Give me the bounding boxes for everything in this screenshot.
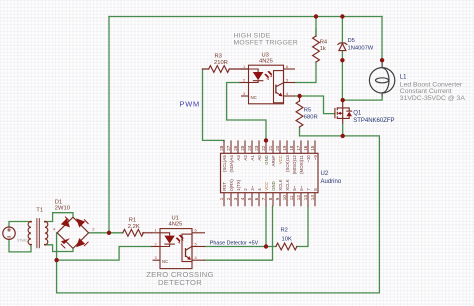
U1 pin3 stub NC [153,259,161,261]
svg-text:3: 3 [155,255,157,260]
Q1 body link [340,108,343,119]
svg-text:26: 26 [233,145,238,151]
svg-text:5: 5 [195,241,197,246]
Q1 body diode cathode bar [346,110,352,112]
Q1 source link [337,118,342,123]
wire Arduino GND pin to U1 pin4 [205,206,273,260]
svg-text:10K: 10K [282,237,292,243]
transformer T1 [28,218,48,248]
svg-text:A0: A0 [257,155,262,161]
U3 photon arrow 1 [264,74,269,80]
svg-text:4: 4 [53,226,56,231]
svg-text:8: 8 [313,188,318,191]
U3 phototransistor emitter [276,92,281,96]
D1 diamond edge NW [57,217,73,233]
Q1 body diode triangle [346,112,352,117]
svg-text:(MOSI)11: (MOSI)11 [299,155,304,174]
U3 pin1 stub [240,68,249,70]
svg-text:6: 6 [286,64,288,69]
svg-text:10: 10 [282,195,287,201]
L1 filament ellipse [376,78,389,83]
U3 pin2 stub [240,82,249,84]
junction D5 top [340,14,344,18]
Q1 drain link and lead [337,100,342,108]
svg-text:0(RX): 0(RX) [229,179,234,191]
svg-text:5~: 5~ [292,185,297,190]
svg-text:T1: T1 [36,208,43,214]
svg-text:4: 4 [286,91,289,96]
svg-text:D1: D1 [55,199,62,205]
svg-text:(SCL)A5: (SCL)A5 [222,155,227,172]
junction bridge minus node [54,258,58,262]
svg-text:R1: R1 [129,218,136,224]
U3 phototransistor base bar [275,85,277,94]
bridge rectifier D1 2W10 [57,217,88,248]
U3 photon arrow 2 [267,71,272,77]
wire R4 top lead to rail [315,17,317,37]
junction bridge plus node [107,231,111,235]
svg-text:L1: L1 [400,75,407,81]
svg-text:1: 1 [29,232,31,236]
svg-text:U1: U1 [172,216,179,222]
U3 LED leads [249,69,259,83]
svg-text:3: 3 [233,197,238,200]
svg-text:Q1: Q1 [353,111,362,117]
svg-text:(SCK)13: (SCK)13 [285,155,290,172]
Q1 body diode bar line top [343,108,350,111]
svg-text:25: 25 [240,145,245,151]
op-to U3 4N25 [240,65,296,104]
svg-text:R5: R5 [304,107,311,113]
svg-text:A2: A2 [243,155,248,161]
D1 diode NW (left to top) [61,218,70,227]
T1 core line left [36,218,38,248]
svg-text:NC: NC [162,259,168,264]
resistor R1 2.2K [123,229,144,236]
D1 diode SW (left to bottom) [61,238,70,244]
wire Q1 source to ground rail [342,124,344,136]
svg-text:Audrino: Audrino [321,179,342,185]
L1 bottom lead [381,93,383,97]
svg-text:12: 12 [296,195,301,201]
svg-text:16: 16 [303,145,308,151]
wire R2 right to Arduino pin 7 [297,206,308,246]
svg-text:2: 2 [92,226,95,231]
Q1 body arrowhead [338,112,341,115]
Q1 body diode bar line bottom [343,116,350,118]
T1 pin dot primary bottom [30,244,32,246]
svg-text:680R: 680R [304,114,318,120]
T1 pin dot primary top [30,221,32,223]
opto U1 4N25 [151,229,205,269]
T1 secondary winding [45,222,48,245]
resistor R3 210R [209,66,230,73]
svg-text:R4: R4 [320,40,328,46]
wire top +V rail [109,16,382,18]
junction D5 anode [340,58,344,62]
resistor R2 10K [276,243,297,250]
svg-text:GND: GND [271,181,276,191]
wire left +V rail [108,17,110,233]
junction Arduino pin22 [264,138,268,142]
D1 NW cathode bar [65,217,70,222]
svg-text:6: 6 [254,197,259,200]
svg-text:GND: GND [264,155,269,165]
svg-text:A3: A3 [236,155,241,161]
U1 phototransistor emitter [186,256,191,260]
wire R4 top lead lower part [315,29,317,36]
L1 inner arc [382,68,389,93]
junction Q1 source ground node [341,134,345,138]
svg-text:PWM: PWM [180,99,200,108]
junction lamp top [380,58,384,62]
diode D5 1N4007W triangle [339,44,346,51]
wire U3 pin4 to gate node [295,95,300,97]
wire R4 bottom to U3 pin5 [295,62,316,83]
svg-text:MOSFET TRIGGER: MOSFET TRIGGER [234,39,298,46]
U1 LED cathode bar [164,243,175,245]
IC U2 Arduino [221,153,319,192]
AC source minus sign [7,236,11,238]
svg-text:24: 24 [247,145,252,151]
svg-text:DETECTOR: DETECTOR [158,278,202,287]
svg-text:NC: NC [251,95,257,100]
U1 pin1 stub [151,232,160,234]
wire D5 anode down to Q1 drain node [341,51,343,100]
wire bridge minus to U1 pin2 [57,247,151,261]
D1 diode NE (top to right) [76,218,85,227]
svg-text:1k: 1k [320,46,326,52]
D1 NE cathode bar [84,219,89,224]
svg-text:22: 22 [261,145,266,151]
wire R1 to U1 pin1 [143,232,151,234]
wire lamp bottom to Q1 drain node [343,97,382,101]
wire Arduino VCC pin down to +5V node [265,206,267,246]
svg-text:VCC: VCC [278,155,283,164]
wire transformer secondary top to bridge AC1 [45,213,73,222]
svg-text:4N25: 4N25 [169,222,183,228]
svg-text:27: 27 [226,145,231,151]
wire U1 pin5 phase detector +5V row [205,246,276,248]
svg-text:STP4NK60ZFP: STP4NK60ZFP [353,118,394,124]
AC source [3,227,15,239]
wire AC source top to transformer primary [9,222,31,228]
svg-text:5: 5 [247,197,252,200]
svg-text:~10: ~10 [306,155,311,163]
D1 SW cathode bar [61,244,66,249]
svg-text:4: 4 [257,188,262,191]
T1 pin dot secondary top [44,221,46,223]
svg-text:1: 1 [219,197,224,200]
wire D5 top lead to rail [341,17,343,43]
svg-text:1: 1 [155,228,157,233]
svg-text:19: 19 [282,145,287,151]
svg-text:~9: ~9 [313,155,318,161]
svg-text:1: 1 [243,64,245,69]
junction +5V node [264,244,268,248]
mosfet Q1 STP4NK60ZFP [335,100,352,123]
wire R5 bottom to ground rail [299,127,301,136]
U3 LED triangle [253,72,264,80]
wire U3 pin2 to Arduino pin22 GND [227,83,266,141]
svg-text:31VDC-35VDC @ 3A: 31VDC-35VDC @ 3A [400,95,466,102]
U2 pin stubs top and bottom [224,140,315,206]
svg-text:15: 15 [310,145,315,151]
Q1 channel dashes [336,107,338,119]
U1 pin6 stub [192,232,205,234]
svg-text:U2: U2 [321,171,329,177]
AC source plus sign [7,228,11,232]
L1 top lead [381,60,383,67]
D1 diamond edge SW [57,233,73,249]
U1 LED leads [160,233,170,247]
svg-text:2: 2 [155,241,157,246]
svg-text:2: 2 [243,188,248,191]
resistor R5 top lead [299,96,301,101]
svg-text:13: 13 [303,195,308,201]
svg-text:(MISO)12: (MISO)12 [292,155,297,175]
svg-text:9: 9 [275,197,280,200]
svg-text:R2: R2 [281,228,288,234]
D1 diamond edge NE [73,217,89,233]
svg-text:XCLK: XCLK [285,179,290,191]
svg-text:2: 2 [243,77,245,82]
D1 diamond edge SE [73,233,89,249]
svg-text:2: 2 [46,232,48,236]
svg-text:20: 20 [275,145,280,151]
svg-text:4: 4 [240,197,245,200]
diode D5 1N4007W cathode bar [338,43,347,45]
Q1 gate line [334,108,336,119]
svg-text:A1: A1 [250,155,255,161]
svg-text:VCC: VCC [264,182,269,191]
U1 photon arrow 2 [179,235,184,241]
resistor R5 680R [296,101,303,127]
resistor R3 leads [203,68,249,70]
U3 pin5 stub [284,82,296,84]
U1 phototransistor collector [186,246,192,250]
svg-text:XCLK: XCLK [278,179,283,191]
svg-text:RST: RST [222,182,227,191]
U1 inner transistor box [182,234,192,261]
svg-text:4: 4 [195,255,198,260]
U3 inner transistor box [274,71,284,103]
U3 pin4 stub [284,95,296,97]
U3 LED cathode bar [253,80,264,82]
svg-text:2.2K: 2.2K [128,224,140,230]
U1 emitter arrowhead [187,256,191,260]
U3 outer box [249,65,284,104]
svg-text:U3: U3 [262,52,269,58]
wire ground rail loop [57,136,380,293]
svg-text:7: 7 [261,197,266,200]
U2 box [221,153,319,192]
T1 core line right [38,218,40,248]
resistor R4 1k [313,36,320,62]
svg-text:17: 17 [296,145,301,151]
lamp L1 [369,60,394,96]
T1 primary winding [28,222,31,245]
svg-text:4N25: 4N25 [259,59,273,65]
wire gate node to Q1 gate [300,96,335,114]
svg-text:2: 2 [226,197,231,200]
AC source circle [3,227,15,239]
wire Arduino pin28 to R3 (PWM net) [203,69,225,141]
wire lamp top from rail [381,17,383,61]
svg-text:5: 5 [286,77,288,82]
svg-text:3: 3 [243,91,245,96]
U3 pin3 stub NC [241,95,249,97]
svg-text:23: 23 [254,145,259,151]
svg-text:18: 18 [289,145,294,151]
svg-text:1N4007W: 1N4007W [348,45,374,51]
U3 emitter arrowhead [279,93,283,97]
junction Q1 drain node [341,98,345,102]
svg-text:2W10: 2W10 [55,206,70,212]
U1 LED triangle [164,236,175,244]
U1 pin2 stub [151,246,160,248]
wire bridge plus output row [89,232,123,234]
junction R4 top [314,14,318,18]
D1 SE cathode bar [84,242,89,247]
svg-text:8: 8 [268,197,273,200]
svg-text:6~: 6~ [299,185,304,190]
svg-text:(SDA)A4: (SDA)A4 [229,155,234,173]
svg-text:210R: 210R [214,60,228,66]
T1 pin dot secondary bottom [44,244,46,246]
D1 diode SE (bottom to right) [76,238,85,247]
svg-text:AReF: AReF [271,155,276,167]
svg-text:6: 6 [195,228,197,233]
svg-text:D5: D5 [348,38,355,44]
svg-text:3~: 3~ [250,185,255,190]
svg-text:Phase Detector +5V: Phase Detector +5V [210,240,259,246]
wire transformer secondary bottom to bridge AC2 [45,245,73,252]
U3 phototransistor collector [276,83,283,87]
U1 outer box [160,229,192,269]
U1 photon arrow 1 [176,237,181,243]
svg-text:21: 21 [268,145,273,151]
junction gate node [297,94,301,98]
U1 phototransistor base bar [185,248,187,257]
svg-text:11: 11 [289,195,294,200]
svg-text:14: 14 [310,195,315,201]
svg-text:1(TX): 1(TX) [236,179,241,191]
svg-text:7: 7 [306,188,311,191]
U1 pin5 stub [192,246,205,248]
svg-text:R3: R3 [215,54,222,60]
U3 pin6 stub [284,68,296,70]
svg-text:9TVAC: 9TVAC [17,238,28,242]
L1 circle [369,68,394,93]
svg-text:28: 28 [219,145,224,151]
U1 pin4 stub [192,259,205,261]
wire AC source bottom to transformer primary [9,240,31,252]
